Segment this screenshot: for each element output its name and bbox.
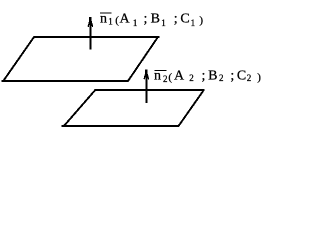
svg-text:B: B	[151, 12, 160, 27]
svg-text:;: ;	[174, 12, 178, 27]
svg-text:): )	[199, 14, 203, 26]
svg-text:n: n	[100, 12, 107, 27]
svg-text:1: 1	[161, 18, 166, 28]
svg-text:;: ;	[202, 69, 206, 84]
svg-text:): )	[257, 72, 261, 84]
svg-text:1: 1	[191, 18, 196, 28]
svg-text:(: (	[168, 72, 172, 84]
svg-text:B: B	[208, 69, 217, 84]
svg-text:;: ;	[144, 12, 148, 27]
svg-text:A: A	[174, 69, 185, 84]
svg-text:1: 1	[133, 18, 138, 28]
svg-text:A: A	[120, 12, 131, 27]
svg-text:2: 2	[247, 73, 252, 83]
svg-text:2: 2	[163, 74, 168, 84]
svg-text:2: 2	[219, 73, 224, 83]
svg-text:C: C	[180, 12, 189, 27]
svg-text:C: C	[237, 69, 246, 84]
svg-text:2: 2	[189, 73, 194, 83]
svg-text:1: 1	[108, 16, 113, 26]
svg-text:;: ;	[230, 69, 234, 84]
svg-text:n: n	[154, 69, 161, 84]
